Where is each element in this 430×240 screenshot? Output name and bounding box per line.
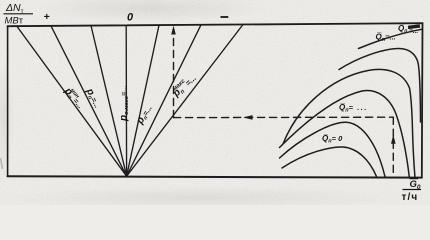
- fan label p_n^maks = ...: [169, 72, 199, 101]
- minus label: [221, 16, 229, 18]
- curve label Qn^maks = ... (corner): [398, 24, 420, 35]
- plot border bottom: [8, 176, 422, 177]
- fan line 2 p_n min: [51, 26, 127, 176]
- fan line 7 p_n maks: [127, 25, 243, 177]
- svg-text:=...: =...: [409, 28, 418, 35]
- plot border left: [7, 26, 9, 176]
- svg-text:т/ч: т/ч: [402, 192, 419, 203]
- fan line 5 p_n: [127, 25, 159, 176]
- arrowhead up on dashed vertical at fan: [171, 26, 176, 35]
- paper blotch top middle: [30, 0, 270, 22]
- x axis label fraction G0 / T/4: [402, 179, 422, 203]
- fan label p_n = ... (right): [134, 103, 155, 127]
- curve 5: [339, 48, 421, 122]
- arrowhead left on dashed horizontal: [243, 115, 253, 120]
- plot border top: [8, 23, 423, 26]
- svg-text:Q̅п= 0: Q̅п= 0: [322, 134, 343, 145]
- paper blotch left mid: [0, 60, 14, 180]
- fan line 4 center p_o.maks: [125, 25, 127, 176]
- curve 3: [280, 90, 410, 176]
- fan line 3 p_n: [91, 26, 127, 177]
- fan label p_n = ... (left): [83, 86, 103, 110]
- dashed vertical line at fan (result DeltaN): [173, 33, 175, 118]
- svg-text:+: +: [44, 11, 50, 23]
- dashed horizontal line: [174, 116, 394, 118]
- paper blotch bottom strip: [0, 186, 400, 210]
- scan streak left edge: [1, 158, 3, 169]
- y axis label fraction DeltaN_T / MVT: [4, 2, 34, 27]
- svg-text:Q̅п= ...: Q̅п= ...: [339, 103, 368, 114]
- curve Qn=... (middle): [280, 122, 386, 177]
- fan line 6: [127, 25, 201, 176]
- dashed vertical line at curves (G0 entry): [392, 117, 394, 177]
- curve 4: [283, 69, 415, 176]
- plot border right: [421, 23, 424, 177]
- curve Qn=0: [282, 147, 377, 177]
- svg-text:Q̅п=...: Q̅п=...: [376, 33, 396, 44]
- fan line 1: [17, 26, 127, 176]
- svg-text:0: 0: [127, 12, 134, 24]
- curve Qn=... (top): [359, 29, 422, 48]
- fan label p_o.maks = ... (vertical): [118, 85, 130, 122]
- fan label p_n^min = ...: [61, 84, 86, 111]
- arrowhead up on dashed vertical at curves: [391, 135, 396, 144]
- svg-text:МВт: МВт: [5, 16, 24, 27]
